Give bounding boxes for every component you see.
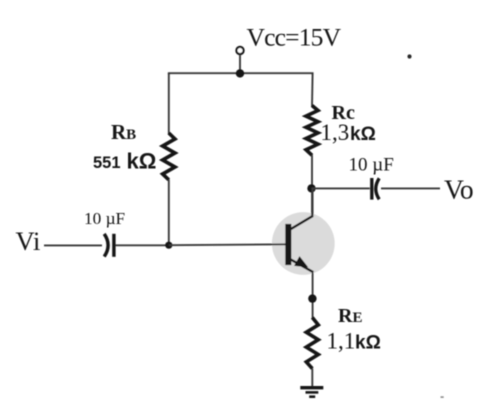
stray mark artifact bottom right (441, 396, 444, 398)
svg-text:10 µF: 10 µF (349, 154, 394, 175)
resistor RE zigzag (306, 318, 318, 369)
wire capacitor C2 to Vo (381, 187, 440, 189)
svg-text:Vi: Vi (16, 226, 41, 256)
svg-text:kΩ: kΩ (127, 149, 157, 174)
svg-text:Vo: Vo (444, 173, 473, 204)
transistor Q1 body highlight circle (272, 212, 335, 275)
wire RE to ground (311, 368, 313, 387)
resistor RB zigzag (163, 133, 175, 180)
svg-text:Vcc=15V: Vcc=15V (247, 22, 342, 51)
resistor Rc zigzag (306, 106, 318, 156)
svg-text:1,1: 1,1 (327, 328, 356, 353)
ground symbol (300, 386, 323, 389)
wire Rc to collector (through output node) (311, 155, 313, 217)
svg-text:kΩ: kΩ (350, 124, 376, 145)
svg-text:10 µF: 10 µF (84, 209, 125, 228)
wire capacitor C1 to base node (116, 244, 169, 246)
wire Vi to capacitor C1 (44, 244, 102, 246)
wire emitter to emitter node (312, 272, 314, 318)
wire Vcc terminal to top rail (239, 55, 241, 74)
junction dot output node (307, 184, 315, 192)
svg-text:551: 551 (93, 154, 121, 172)
wire rail down to resistor RB (168, 73, 170, 134)
junction dot emitter node (308, 294, 316, 302)
capacitor C2 (output coupling) (370, 178, 373, 200)
wire rail down to resistor Rc (311, 73, 314, 106)
Vcc terminal (open circle) (236, 47, 243, 54)
wire base node to transistor base (169, 243, 286, 246)
transistor Q1 base bar (285, 224, 291, 265)
svg-text:1,3: 1,3 (321, 120, 350, 145)
wire collector up to Rc/output node handled above; wire emitter down to RE (312, 188, 314, 217)
capacitor C1 (input coupling) (104, 234, 108, 257)
stray dot artifact top right (407, 54, 411, 58)
junction dot base node (165, 242, 172, 249)
transistor Q1 emitter lead (290, 259, 314, 272)
wire output node to capacitor C2 (312, 187, 370, 189)
wire top rail (169, 73, 313, 74)
wire RB to base node (168, 180, 170, 246)
junction dot at Vcc rail (236, 69, 244, 77)
transistor Q1 emitter arrow (294, 256, 308, 267)
transistor Q1 collector lead (290, 216, 314, 230)
svg-text:kΩ: kΩ (355, 332, 381, 353)
